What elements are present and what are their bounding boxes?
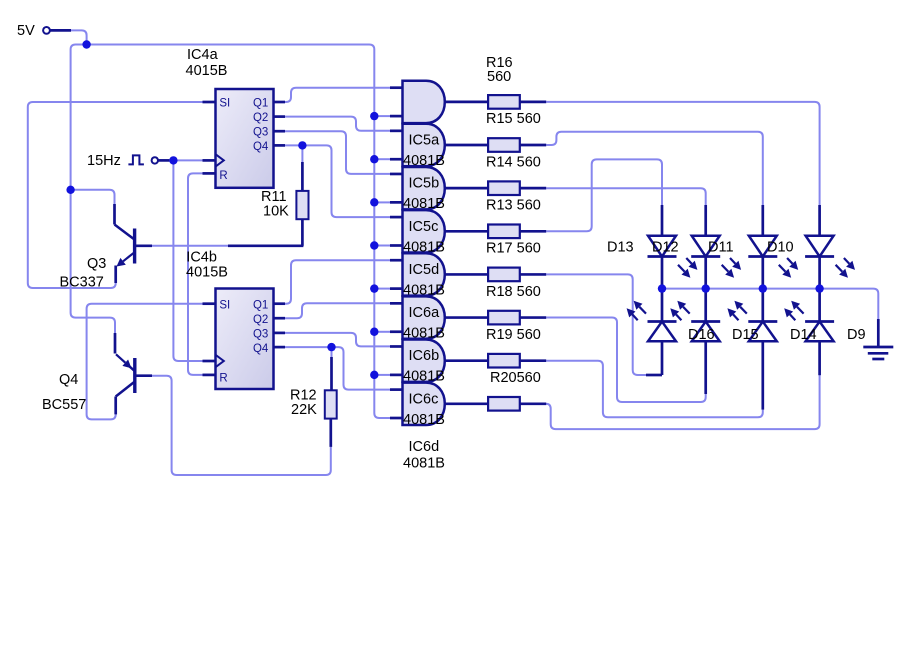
label gate IC5d (403, 262, 445, 299)
gate 6 lower input pin (390, 330, 403, 333)
svg-text:Q2: Q2 (253, 112, 268, 124)
resistor R16 right lead (520, 101, 546, 104)
LED D9 (805, 322, 834, 342)
wire Q3 base to R11 bottom (152, 245, 230, 247)
LED D11 (748, 236, 777, 257)
AND gate 6 IC6a 4081B (403, 296, 445, 338)
svg-text:IC6d: IC6d (409, 439, 440, 455)
resistor R19 right lead (520, 359, 546, 362)
svg-text:R15 560: R15 560 (486, 111, 541, 127)
wire R15 to LED column 3 top (546, 132, 763, 205)
wire R16 to LED column 4 top (546, 102, 819, 205)
wire R18 to LED column 2 bottom (546, 318, 706, 403)
LED D12 arrows (722, 258, 741, 278)
AND gate 4 IC5c 4081B (403, 210, 445, 252)
svg-text:Q1: Q1 (253, 300, 268, 312)
label R12 22K (290, 388, 317, 419)
gate 5 output pin (445, 273, 489, 276)
gate 8 upper input pin (390, 388, 403, 391)
wire rail to gate 7 lower input (374, 374, 390, 376)
svg-text:4081B: 4081B (403, 456, 445, 472)
AND gate 1 unlabeled 4081B (403, 81, 445, 123)
svg-text:SI: SI (219, 300, 230, 312)
gate 8 lower input pin (390, 417, 403, 420)
wire clock node to IC4b clock (173, 160, 202, 361)
wire rail to gate 5 lower input (374, 288, 390, 290)
5V terminal circle (43, 27, 50, 34)
svg-text:22K: 22K (291, 402, 317, 418)
svg-text:Q2: Q2 (253, 314, 268, 326)
shift register IC4a (216, 89, 274, 188)
AND gate 3 IC5b 4081B (403, 167, 445, 209)
LED D16 (648, 322, 677, 342)
svg-text:R: R (219, 170, 227, 182)
LED column 2 top lead (704, 205, 707, 236)
svg-text:Q4: Q4 (253, 141, 269, 153)
svg-text:IC5b: IC5b (409, 176, 440, 192)
wire IC4a Q3 to gate 3 (285, 131, 390, 174)
transistor Q3 emitter (116, 253, 134, 283)
label R17 560 (486, 241, 541, 257)
resistor R20 (488, 397, 520, 411)
svg-text:4081B: 4081B (403, 326, 445, 342)
svg-text:D14: D14 (790, 327, 817, 343)
node clock junction (169, 156, 177, 164)
transistor Q3 base bar (133, 229, 136, 264)
svg-text:4081B: 4081B (403, 282, 445, 298)
LED D10 (805, 236, 834, 257)
wire rail to gate 4 lower input (374, 245, 390, 247)
transistor Q3 base lead (135, 244, 152, 247)
transistor Q3 collector (115, 204, 134, 239)
transistor Q4 base lead (135, 374, 152, 377)
LED D13 arrows (678, 258, 697, 278)
wire IC4b Q3 to gate 7 (285, 333, 390, 347)
svg-text:4081B: 4081B (403, 369, 445, 385)
svg-text:IC5d: IC5d (409, 262, 440, 278)
svg-text:Q4: Q4 (253, 343, 269, 355)
wire R14 to LED column 2 top (546, 188, 706, 205)
node rail to gate 3 lower input (370, 198, 378, 206)
IC4a clock pin and wedge (203, 154, 224, 166)
resistor R15 (488, 138, 520, 152)
svg-text:R17 560: R17 560 (486, 241, 541, 257)
resistor R14 right lead (520, 187, 546, 190)
svg-text:IC5a: IC5a (409, 133, 441, 149)
resistor R15 right lead (520, 144, 546, 147)
svg-text:D12: D12 (652, 240, 679, 256)
wire IC4a Q2 to gate 2 (285, 117, 390, 131)
LED column 2 middle lead (704, 257, 707, 322)
node rail to gate 6 lower input (370, 328, 378, 336)
svg-text:SI: SI (219, 98, 230, 110)
wire IC4b Q2 to gate 6 (285, 303, 390, 318)
svg-text:5V: 5V (17, 23, 35, 39)
gate 3 output pin (445, 187, 489, 190)
wire IC4b Q4 to gate 8 (285, 347, 390, 390)
label R13 560 (486, 197, 541, 213)
node LED column 2 bus junction (702, 284, 710, 292)
resistor R13 (488, 225, 520, 239)
svg-text:D10: D10 (767, 240, 794, 256)
svg-text:BC557: BC557 (42, 397, 86, 413)
labels top LEDs D13 D12 D11 D10 (607, 240, 794, 256)
wire R17 to LED column 1 bottom (546, 274, 648, 375)
wire rail to gate 2 lower input (374, 158, 390, 160)
labels bottom LEDs D16 D15 D14 D9 (688, 327, 866, 343)
resistor R17 right lead (520, 273, 546, 276)
label IC4b 4015B (186, 250, 228, 281)
wire R11 top lead upper segment (301, 145, 303, 162)
gate 2 output pin (445, 144, 489, 147)
gate 4 upper input pin (390, 216, 403, 219)
label R15 560 (486, 111, 541, 127)
resistor R19 (488, 354, 520, 368)
LED D12 (691, 236, 720, 257)
wire from 5V terminal (50, 30, 86, 44)
label gate IC6a (403, 305, 445, 342)
label R18 560 (486, 284, 541, 300)
gate 3 upper input pin (390, 173, 403, 176)
resistor R17 (488, 268, 520, 282)
wire rail to gate 3 lower input (374, 201, 390, 203)
LED D14 (748, 322, 777, 342)
gate 3 lower input pin (390, 201, 403, 204)
label R20560 (490, 370, 541, 386)
IC4b pin SI (203, 302, 216, 305)
label R14 560 (486, 154, 541, 170)
LED column 1 top lead (661, 205, 664, 236)
wire IC4a Q4 to gate 4 (285, 145, 390, 217)
svg-text:R: R (219, 372, 227, 384)
svg-text:R19 560: R19 560 (486, 327, 541, 343)
label IC4a 4015B (186, 47, 228, 79)
LED D13 (648, 236, 677, 257)
LED column 2 bottom lead (704, 341, 707, 394)
resistor R12 leads (329, 357, 332, 447)
label 5V (17, 23, 35, 39)
gate 6 output pin (445, 316, 489, 319)
svg-text:4081B: 4081B (403, 196, 445, 212)
wire reset IC4a R to IC4b R (188, 173, 203, 375)
svg-text:15Hz: 15Hz (87, 153, 121, 169)
svg-text:4081B: 4081B (403, 412, 445, 428)
svg-text:Q3: Q3 (253, 127, 268, 139)
svg-text:D15: D15 (732, 327, 759, 343)
transistor Q4 emitter (115, 333, 135, 371)
label 15Hz (87, 153, 121, 169)
label gate IC6b (403, 348, 445, 385)
IC4a pin SI (203, 101, 216, 104)
gate 1 lower input pin (390, 115, 403, 118)
AND gate 5 IC5d 4081B (403, 253, 445, 295)
wire R12 top lead upper segment (331, 347, 333, 357)
label spare gate IC6d 4081B (403, 439, 445, 472)
gate 7 upper input pin (390, 345, 403, 348)
svg-text:R20560: R20560 (490, 370, 541, 386)
gate 1 output pin (445, 101, 489, 104)
LED D15 arrows (670, 301, 689, 321)
AND gate 2 IC5a 4081B (403, 124, 445, 166)
AND gate 8 IC6c 4081B (403, 383, 445, 425)
wire R20 to LED column 4 bottom (546, 374, 820, 429)
resistor R18 (488, 311, 520, 325)
node R12 top junction (327, 343, 335, 351)
wire Q4 base to R12 bottom (152, 376, 331, 475)
IC4b pin Q3 (274, 332, 286, 335)
gate 2 lower input pin (390, 158, 403, 161)
svg-text:IC6b: IC6b (409, 348, 440, 364)
AND gate 7 IC6b 4081B (403, 340, 445, 382)
svg-text:D13: D13 (607, 240, 634, 256)
svg-text:Q1: Q1 (253, 98, 268, 110)
ground (863, 319, 893, 359)
LED column 4 bottom lead (818, 341, 821, 375)
svg-text:10K: 10K (263, 204, 289, 220)
node rail to gate 1 lower input (370, 112, 378, 120)
gate 7 lower input pin (390, 374, 403, 377)
IC4b pin Q2 (274, 317, 286, 320)
svg-text:4015B: 4015B (186, 63, 228, 79)
LED column 1 middle lead (661, 257, 664, 322)
node 5V junction (82, 40, 90, 48)
svg-text:R14 560: R14 560 (486, 154, 541, 170)
IC4a pin Q2 (274, 115, 286, 118)
svg-text:4081B: 4081B (403, 239, 445, 255)
gate 4 lower input pin (390, 244, 403, 247)
svg-text:Q4: Q4 (59, 372, 78, 388)
gate 2 upper input pin (390, 129, 403, 132)
wire IC4a Q1 to gate 1 (285, 88, 390, 102)
svg-text:IC6c: IC6c (409, 391, 439, 407)
IC4a pin Q4 (274, 144, 286, 147)
label R19 560 (486, 327, 541, 343)
LED D14 arrows (727, 301, 746, 321)
node LED column 4 bus junction (815, 284, 823, 292)
wire column 1 bottom stub (646, 374, 662, 377)
resistor R13 right lead (520, 230, 546, 233)
label R11 10K (261, 189, 289, 220)
node rail to gate 5 lower input (370, 284, 378, 292)
svg-text:R13 560: R13 560 (486, 197, 541, 213)
label Q4 BC557 (42, 372, 86, 413)
IC4b pin labels (219, 300, 269, 385)
15Hz terminal circle (152, 157, 158, 163)
wire Q3 collector to 5V rail (71, 190, 115, 205)
svg-text:D11: D11 (708, 240, 734, 256)
node LED column 3 bus junction (759, 284, 767, 292)
LED column 3 top lead (761, 205, 764, 236)
IC4a pin labels (219, 98, 269, 183)
gate 6 upper input pin (390, 302, 403, 305)
svg-text:IC4a: IC4a (187, 47, 219, 63)
gate 5 lower input pin (390, 287, 403, 290)
wire 5V left rail down to Q4 emitter (71, 45, 115, 334)
LED D16 arrows (627, 301, 646, 321)
LED column 4 top lead (818, 205, 821, 236)
svg-text:R18 560: R18 560 (486, 284, 541, 300)
svg-text:BC337: BC337 (60, 275, 104, 291)
svg-text:Q3: Q3 (87, 256, 106, 272)
resistor R20 right lead (520, 402, 546, 405)
node rail to gate 2 lower input (370, 155, 378, 163)
svg-text:IC6a: IC6a (409, 305, 441, 321)
wire LED common bus to ground (662, 289, 878, 319)
node rail to gate 4 lower input (370, 241, 378, 249)
svg-text:4081B: 4081B (403, 153, 445, 169)
wire 5V top rail to gate lower-input rail (87, 45, 390, 419)
LED column 1 bottom lead (661, 341, 664, 375)
gate 7 output pin (445, 359, 489, 362)
node rail to gate 7 lower input (370, 371, 378, 379)
gate 8 output pin (445, 402, 489, 405)
label gate IC6c (403, 391, 445, 428)
label gate IC5a (403, 133, 445, 170)
wire Q3 emitter to IC4a SI (28, 102, 203, 288)
resistor R12 (325, 390, 337, 418)
transistor Q4 base bar (133, 358, 136, 393)
label R16 560 (486, 55, 513, 85)
shift register IC4b (216, 289, 274, 390)
resistor R16 (488, 95, 520, 109)
svg-text:D16: D16 (688, 327, 715, 343)
svg-text:Q3: Q3 (253, 329, 268, 341)
label gate IC5b (403, 176, 445, 213)
LED column 4 middle lead (818, 257, 821, 322)
label Q3 BC337 (60, 256, 107, 291)
IC4a pin Q1 (274, 101, 286, 104)
wire Q4 collector to IC4b SI (87, 304, 203, 420)
IC4a pin Q3 (274, 130, 286, 133)
wire rail to gate 6 lower input (374, 331, 390, 333)
IC4b clock pin and wedge (203, 355, 224, 367)
gate 4 output pin (445, 230, 489, 233)
svg-text:4015B: 4015B (186, 265, 228, 281)
wire 15Hz to clock node (158, 159, 169, 162)
IC4b pin Q4 (274, 346, 286, 349)
node LED column 1 bus junction (658, 284, 666, 292)
gate 5 upper input pin (390, 259, 403, 262)
wire rail to gate 1 lower input (374, 115, 390, 117)
gate 1 upper input pin (390, 86, 403, 89)
wire R13 to LED column 1 top (546, 159, 662, 231)
LED D15 (691, 322, 720, 342)
resistor R11 leads (228, 162, 303, 246)
node Q3 collector junction on 5V rail (66, 186, 74, 194)
svg-text:560: 560 (487, 69, 511, 85)
LED D11 arrows (779, 258, 798, 278)
IC4a pin R (203, 172, 216, 175)
IC4b pin R (203, 374, 216, 377)
wire IC4b Q1 to gate 5 (285, 260, 390, 304)
LED column 3 bottom lead (761, 341, 764, 409)
LED D10 arrows (836, 258, 855, 278)
label gate IC5c (403, 219, 445, 256)
wire R19 to LED column 3 bottom (546, 361, 763, 418)
node R11 top junction (298, 141, 306, 149)
pulse symbol (128, 155, 144, 164)
svg-text:IC5c: IC5c (409, 219, 439, 235)
resistor R11 (296, 191, 308, 219)
LED D9 arrows (784, 301, 803, 321)
transistor Q4 collector (116, 382, 135, 414)
IC4b pin Q1 (274, 302, 286, 305)
resistor R14 (488, 181, 520, 195)
LED column 3 middle lead (761, 257, 764, 322)
svg-text:IC4b: IC4b (186, 250, 217, 266)
resistor R18 right lead (520, 316, 546, 319)
wire clock node to IC4a clock (173, 159, 202, 161)
svg-text:D9: D9 (847, 327, 866, 343)
